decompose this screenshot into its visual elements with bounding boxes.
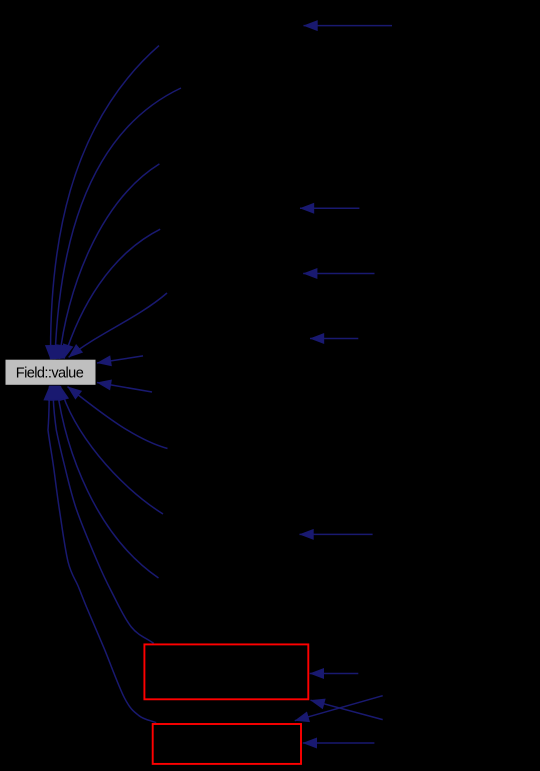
edge caller1 -> Field::value xyxy=(51,46,159,360)
edge arrow A5 xyxy=(300,533,373,535)
edge truncated-box1 -> Field::value xyxy=(53,386,154,643)
edge caller10 -> Field::value xyxy=(57,386,159,578)
edge arrow A8 into box1 bottom-right xyxy=(311,700,383,719)
edge arrow A4 xyxy=(310,338,358,340)
edge caller9 -> Field::value xyxy=(60,386,163,514)
edge arrow A3 xyxy=(303,273,374,275)
edge arrow A9 into box2 right xyxy=(303,742,375,744)
edge arrow A6 into box1 right xyxy=(310,673,359,675)
edge caller2 -> Field::value xyxy=(55,88,181,359)
edge arrow A1 (top right) xyxy=(304,25,393,27)
edge caller7 -> Field::value (right lower) xyxy=(97,383,152,393)
node truncated-box2 (red) xyxy=(153,724,301,764)
edge caller6 -> Field::value (right upper) xyxy=(97,356,143,363)
edge arrow A2 xyxy=(300,207,359,209)
edge caller8 -> Field::value xyxy=(68,387,168,449)
svg-text:Field::value: Field::value xyxy=(16,365,84,381)
edge caller4 -> Field::value xyxy=(64,229,160,358)
node truncated-box1 (red) xyxy=(144,644,308,699)
node Field::value xyxy=(6,360,96,385)
edge caller3 -> Field::value xyxy=(59,164,159,359)
edge arrow A7 into box2 top-right xyxy=(295,696,383,721)
edge truncated-box2 -> Field::value xyxy=(48,386,156,722)
merged arrowhead cluster below Field::value xyxy=(46,386,67,400)
edge caller5 -> Field::value xyxy=(69,293,167,357)
merged arrowhead cluster above Field::value xyxy=(46,345,67,359)
